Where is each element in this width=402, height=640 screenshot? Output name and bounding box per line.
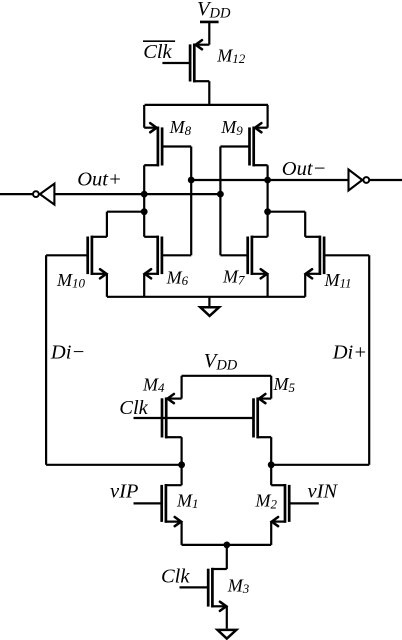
wire tail to M3 drain (226, 545, 228, 569)
node M10 branch junction (141, 208, 148, 215)
label Clk-bar inverted clock (143, 41, 175, 63)
wire Out+ line (54, 193, 220, 195)
node M11 branch junction (264, 208, 271, 215)
svg-text:Out−: Out− (282, 158, 327, 180)
wire M10 source down (106, 274, 108, 297)
label M4 (142, 374, 165, 395)
label Clk precharge clock (119, 397, 148, 419)
wire M9 source from rail (267, 105, 269, 128)
svg-text:Out+: Out+ (77, 169, 122, 191)
wire M10 drain branch (107, 212, 144, 237)
wire M12 gate lead (162, 62, 190, 64)
svg-text:Di−: Di− (50, 341, 85, 363)
transistor M9 PMOS cross-coupled right (250, 123, 268, 166)
node M8 gate Out- junction (188, 177, 195, 184)
node M9 gate Out+ junction (217, 191, 224, 198)
wire M2 source down (270, 522, 272, 545)
label M2 (255, 491, 278, 512)
transistor M6 NMOS latch left (144, 236, 162, 279)
label vIP (110, 481, 138, 503)
wire M11 drain branch (268, 212, 306, 237)
transistor M3 NMOS tail clock switch (208, 568, 227, 611)
svg-text:vIP: vIP (110, 481, 138, 503)
label Di- (50, 341, 85, 363)
label M7 (222, 267, 245, 288)
wire M11 source down (304, 274, 306, 297)
wire M1 gate lead (134, 502, 162, 504)
label M8 (169, 117, 192, 138)
wire M4 source from rail (181, 376, 183, 399)
label vIN (308, 481, 339, 503)
wire M8 gate to Out- column (162, 147, 191, 256)
wire M3 source down (226, 606, 228, 628)
wire Di- feedback (46, 255, 182, 464)
wire tail rail (182, 544, 272, 546)
label M11 (324, 270, 352, 291)
wire latch top rail (145, 104, 268, 106)
wire Out+ column (143, 165, 145, 237)
wire M6 gate lead (162, 254, 191, 256)
svg-text:Clk: Clk (119, 397, 148, 419)
transistor M11 NMOS pass right (305, 236, 324, 279)
svg-text:vIN: vIN (308, 481, 339, 503)
svg-text:Di+: Di+ (332, 341, 367, 363)
transistor M1 NMOS input vIP (162, 484, 182, 526)
transistor M8 PMOS cross-coupled left (144, 123, 162, 166)
label Clk tail clock (161, 566, 190, 588)
wire M12 drain to latch rail (208, 81, 210, 105)
label Out- (282, 158, 327, 180)
node M9 drain Out- junction (264, 177, 271, 184)
label M1 (176, 490, 199, 511)
label M3 (227, 575, 250, 596)
label M5 (273, 374, 296, 395)
wire M9 gate to Out+ column (220, 147, 249, 256)
wire latch ground rail (107, 296, 305, 298)
wire M5 drain column (270, 437, 272, 485)
label M9 (220, 117, 243, 138)
svg-text:Clk: Clk (143, 41, 172, 63)
label Out+ (77, 169, 122, 191)
node Di+ tap junction (268, 461, 275, 468)
wire M5 source from rail (270, 376, 272, 399)
wire M11 gate lead (324, 254, 369, 256)
inverter left buffer (0, 184, 54, 205)
wire Out- column (267, 165, 269, 237)
label M10 (56, 270, 86, 291)
label M12 (216, 45, 246, 66)
ground bottom (218, 630, 237, 639)
transistor M7 NMOS latch right (248, 236, 268, 279)
wire M8 source from rail (143, 105, 145, 128)
power VDD top supply (197, 0, 231, 45)
wire M10 gate lead (46, 254, 88, 256)
inverter right buffer (349, 170, 402, 191)
wire Clk line M4 M5 gates (134, 417, 254, 419)
transistor M5 PMOS precharge right (254, 394, 272, 438)
label Di+ (332, 341, 367, 363)
transistor M4 PMOS precharge left (162, 394, 182, 438)
svg-text:Clk: Clk (161, 566, 190, 588)
power VDD input stage (182, 350, 272, 376)
transistor M2 NMOS input vIN (271, 484, 289, 526)
wire M7 source down (267, 274, 269, 297)
wire M6 source down (143, 274, 145, 297)
wire M7 gate lead (220, 254, 247, 256)
wire Di+ feedback (271, 255, 369, 464)
ground latch (200, 297, 219, 316)
label M6 (166, 267, 189, 288)
transistor M10 NMOS pass left (88, 236, 107, 279)
node Di- tap junction (178, 461, 185, 468)
node tail junction (223, 542, 230, 549)
node M8 drain Out+ junction (141, 191, 148, 198)
wire M2 gate lead (289, 502, 319, 504)
wire M1 source down (181, 522, 183, 545)
transistor M12 PMOS clock switch (190, 40, 209, 82)
wire M3 gate lead (180, 586, 209, 588)
wire Out- line (191, 179, 348, 181)
wire M4 drain column (181, 437, 183, 485)
